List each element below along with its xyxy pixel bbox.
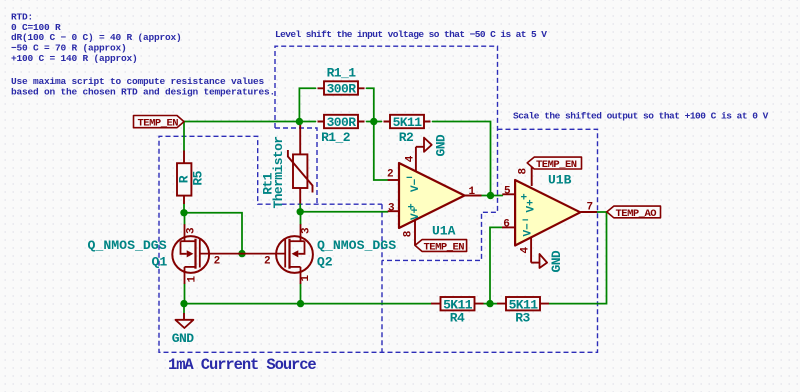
resistor R5 [177,151,206,205]
svg-text:300R: 300R [327,115,357,130]
junction gate node [238,250,245,257]
junction ground rail Q1 [180,300,187,307]
Q1 source pin [184,267,186,284]
wire U1A out to U1B pin5 [482,195,503,197]
svg-text:Q_NMOS_DGS: Q_NMOS_DGS [317,238,396,253]
U1B pin5 [502,193,515,195]
Q1 gate pin [200,253,242,255]
wire Q1 source to ground rail [184,284,186,304]
op-amp U1A [388,147,482,246]
svg-text:V+: V+ [526,199,538,213]
svg-text:TEMP_AO: TEMP_AO [616,208,657,220]
thermistor Rt1 [261,125,313,209]
junction ground rail Q2 [297,300,304,307]
svg-text:8: 8 [403,230,415,237]
Q2 channel bar [288,239,290,269]
resistor R1_2 [318,115,365,145]
global label TEMP_EN (U1A pin8) [415,240,467,254]
junction dots [180,118,494,307]
svg-text:GND: GND [434,134,449,156]
dashed box: scale region and 1mA box chain [159,129,598,352]
transistor Q2 [242,224,313,284]
wire R2 right to feedback corner [433,122,491,196]
wire thermistor bottom to junction [299,204,301,212]
wire U1B out to TEMP_AO [597,211,607,213]
op-amp U1B [502,165,597,263]
global label TEMP_EN (U1B pin8) [527,157,581,171]
Q2 pin numbers [264,227,313,282]
Q2 source pin [300,267,302,284]
U1B input/power marks [521,193,538,237]
svg-text:GND: GND [549,250,564,272]
dashed box: level shift region outline [275,46,498,260]
svg-text:V−: V− [410,178,422,192]
wire R3 right to feedback riser [549,212,607,304]
junction R4 R3 [486,300,493,307]
resistor R2 [384,115,431,145]
wire junction to U1A pin3 [300,211,388,213]
wire junction to gates [184,213,242,254]
Q2 top stub [290,240,305,242]
wire R1_1 branch left [299,88,315,121]
svg-text:3: 3 [301,227,313,234]
svg-text:300R: 300R [327,82,357,97]
wire pin2 feed from R1_2/R2 junction [374,122,388,181]
ground GND at U1A pin4 [416,134,449,156]
svg-text:1: 1 [300,275,312,282]
svg-text:6: 6 [503,218,510,230]
wire TEMP_EN down to R5 [183,122,185,152]
svg-text:GND: GND [172,331,194,346]
U1A pin4 [415,147,417,171]
dashed box: 1mA right edge [381,204,383,352]
Q2 bulk tie [298,241,304,254]
svg-text:Thermistor: Thermistor [271,136,286,208]
svg-text:Scale the shifted output so th: Scale the shifted output so that +100 C … [513,110,769,121]
svg-text:V+: V+ [410,206,422,220]
resistor R4 [431,297,484,326]
svg-text:Q_NMOS_DGS: Q_NMOS_DGS [88,238,167,253]
U1B pin6 [502,226,515,228]
resistor R1_1 [318,66,365,97]
svg-text:R5: R5 [191,170,206,185]
svg-text:3: 3 [388,202,395,214]
U1B pin8 [531,165,533,186]
wire junction down to Q2 drain [300,212,302,224]
svg-text:R2: R2 [399,130,414,145]
resistor R3 [497,297,549,326]
junction R1 parallel left [296,118,303,125]
svg-text:U1B: U1B [548,173,572,188]
Q2 bottom stub [290,266,301,268]
svg-text:4: 4 [404,155,416,162]
svg-text:4: 4 [520,247,532,254]
junction thermistor bottom [297,208,304,215]
Q1 gate plate [199,239,201,267]
svg-text:R: R [177,175,192,183]
wire R1_1 branch right [367,88,374,121]
junction U1A output [487,192,494,199]
wire gnd stub [183,304,185,313]
svg-text:1: 1 [186,276,198,283]
Q1 drain pin [184,224,186,241]
U1A pin1 [465,195,482,197]
U1A pin2 [388,179,399,181]
svg-text:TEMP_EN: TEMP_EN [138,118,179,130]
svg-text:TEMP_EN: TEMP_EN [424,242,465,254]
svg-text:0 C=100 R: 0 C=100 R [11,22,61,33]
svg-text:TEMP_EN: TEMP_EN [536,159,577,171]
svg-text:R1_1: R1_1 [327,66,357,81]
svg-text:5: 5 [504,185,511,197]
svg-text:8: 8 [518,168,530,175]
svg-text:+100 C = 140 R (approx): +100 C = 140 R (approx) [11,53,138,64]
Q2 gate pin [242,253,285,255]
svg-text:RTD:: RTD: [11,11,33,22]
Q1 arrow [187,250,194,257]
Q1 bulk tie [181,241,187,254]
svg-text:R3: R3 [515,311,530,326]
junction R5 bottom [180,209,187,216]
wire TEMP_EN row to R1_2 [184,121,316,123]
U1A input/power marks [406,173,422,220]
svg-text:Q1: Q1 [152,254,168,269]
svg-text:1mA Current Source: 1mA Current Source [168,356,316,374]
svg-text:1: 1 [469,186,476,198]
svg-text:2: 2 [387,168,394,180]
wire R4R3 junction up to pin6 [490,227,502,303]
wire junction down to Q1 drain [184,213,186,224]
svg-text:7: 7 [587,202,594,214]
ground GND at U1B pin4 [531,250,564,272]
transistor Q1 [172,224,242,284]
svg-text:R1_2: R1_2 [321,130,351,145]
Q1 channel bar [194,239,196,269]
wire R4 to R3 [484,303,498,305]
U1B pin7 [580,211,597,213]
Q2 gate plate [284,239,286,267]
svg-text:3: 3 [186,227,198,234]
svg-text:U1A: U1A [432,224,456,239]
svg-text:−50 C = 70 R (approx): −50 C = 70 R (approx) [11,43,127,54]
U1A pin8 [414,220,416,245]
dashed box: thermistor notch [275,128,317,204]
wire ground rail [184,303,431,305]
ground GND bottom [172,313,194,346]
wire Q2 source to ground rail [300,284,302,304]
svg-text:dR(100 C − 0 C) = 40 R (approx: dR(100 C − 0 C) = 40 R (approx) [11,32,182,43]
U1A pin numbers [387,155,476,237]
U1B pin numbers [503,168,593,254]
svg-text:Q2: Q2 [317,254,333,269]
junction R1 parallel right [370,118,377,125]
Q1 top stub [181,240,196,242]
U1B pin4 [530,238,532,263]
svg-text:Use maxima script to compute r: Use maxima script to compute resistance … [11,76,265,87]
Q2 drain pin [300,224,302,241]
wire R5 bottom to junction [183,204,185,213]
svg-text:based on the chosen RTD and de: based on the chosen RTD and design tempe… [11,87,275,98]
svg-text:5K11: 5K11 [393,115,423,130]
global label TEMP_AO (output) [607,206,661,220]
wire R1_2 right to R2 left [367,121,382,123]
Q1 bottom stub [185,266,196,268]
Q1 pin numbers [186,227,221,283]
svg-text:V−: V− [523,223,535,237]
global label TEMP_EN (input left) [134,116,185,130]
U1A pin3 [388,210,399,212]
svg-text:Level shift the input voltage: Level shift the input voltage so that −5… [275,29,547,40]
note text block RTD calculations [11,11,275,97]
svg-text:R4: R4 [450,311,465,326]
svg-text:2: 2 [214,255,221,267]
svg-text:2: 2 [264,255,271,267]
Q2 arrow [292,250,299,257]
